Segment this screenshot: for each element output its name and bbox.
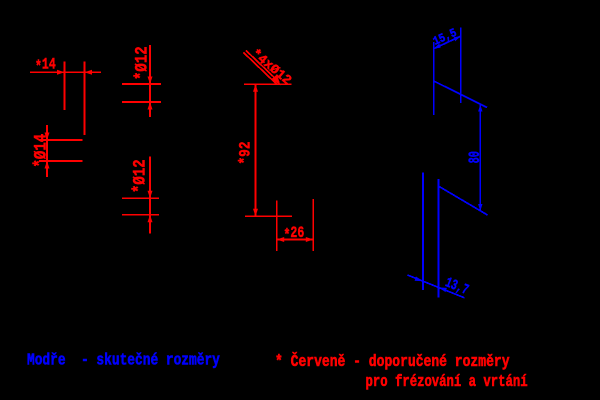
svg-text:*Ø12: *Ø12 bbox=[130, 159, 150, 193]
svg-text:80: 80 bbox=[467, 151, 485, 163]
svg-text:*26: *26 bbox=[284, 225, 305, 246]
svg-text:*14: *14 bbox=[35, 56, 56, 77]
svg-text:pro frézování a vrtání: pro frézování a vrtání bbox=[366, 374, 528, 392]
svg-text:*Ø12: *Ø12 bbox=[132, 46, 152, 80]
svg-text:Modře - skutečné rozměry: Modře - skutečné rozměry bbox=[27, 352, 220, 370]
svg-text:* Červeně - doporučené rozměry: * Červeně - doporučené rozměry bbox=[275, 351, 510, 371]
svg-text:*Ø14: *Ø14 bbox=[31, 134, 51, 168]
svg-text:*92: *92 bbox=[237, 141, 255, 164]
